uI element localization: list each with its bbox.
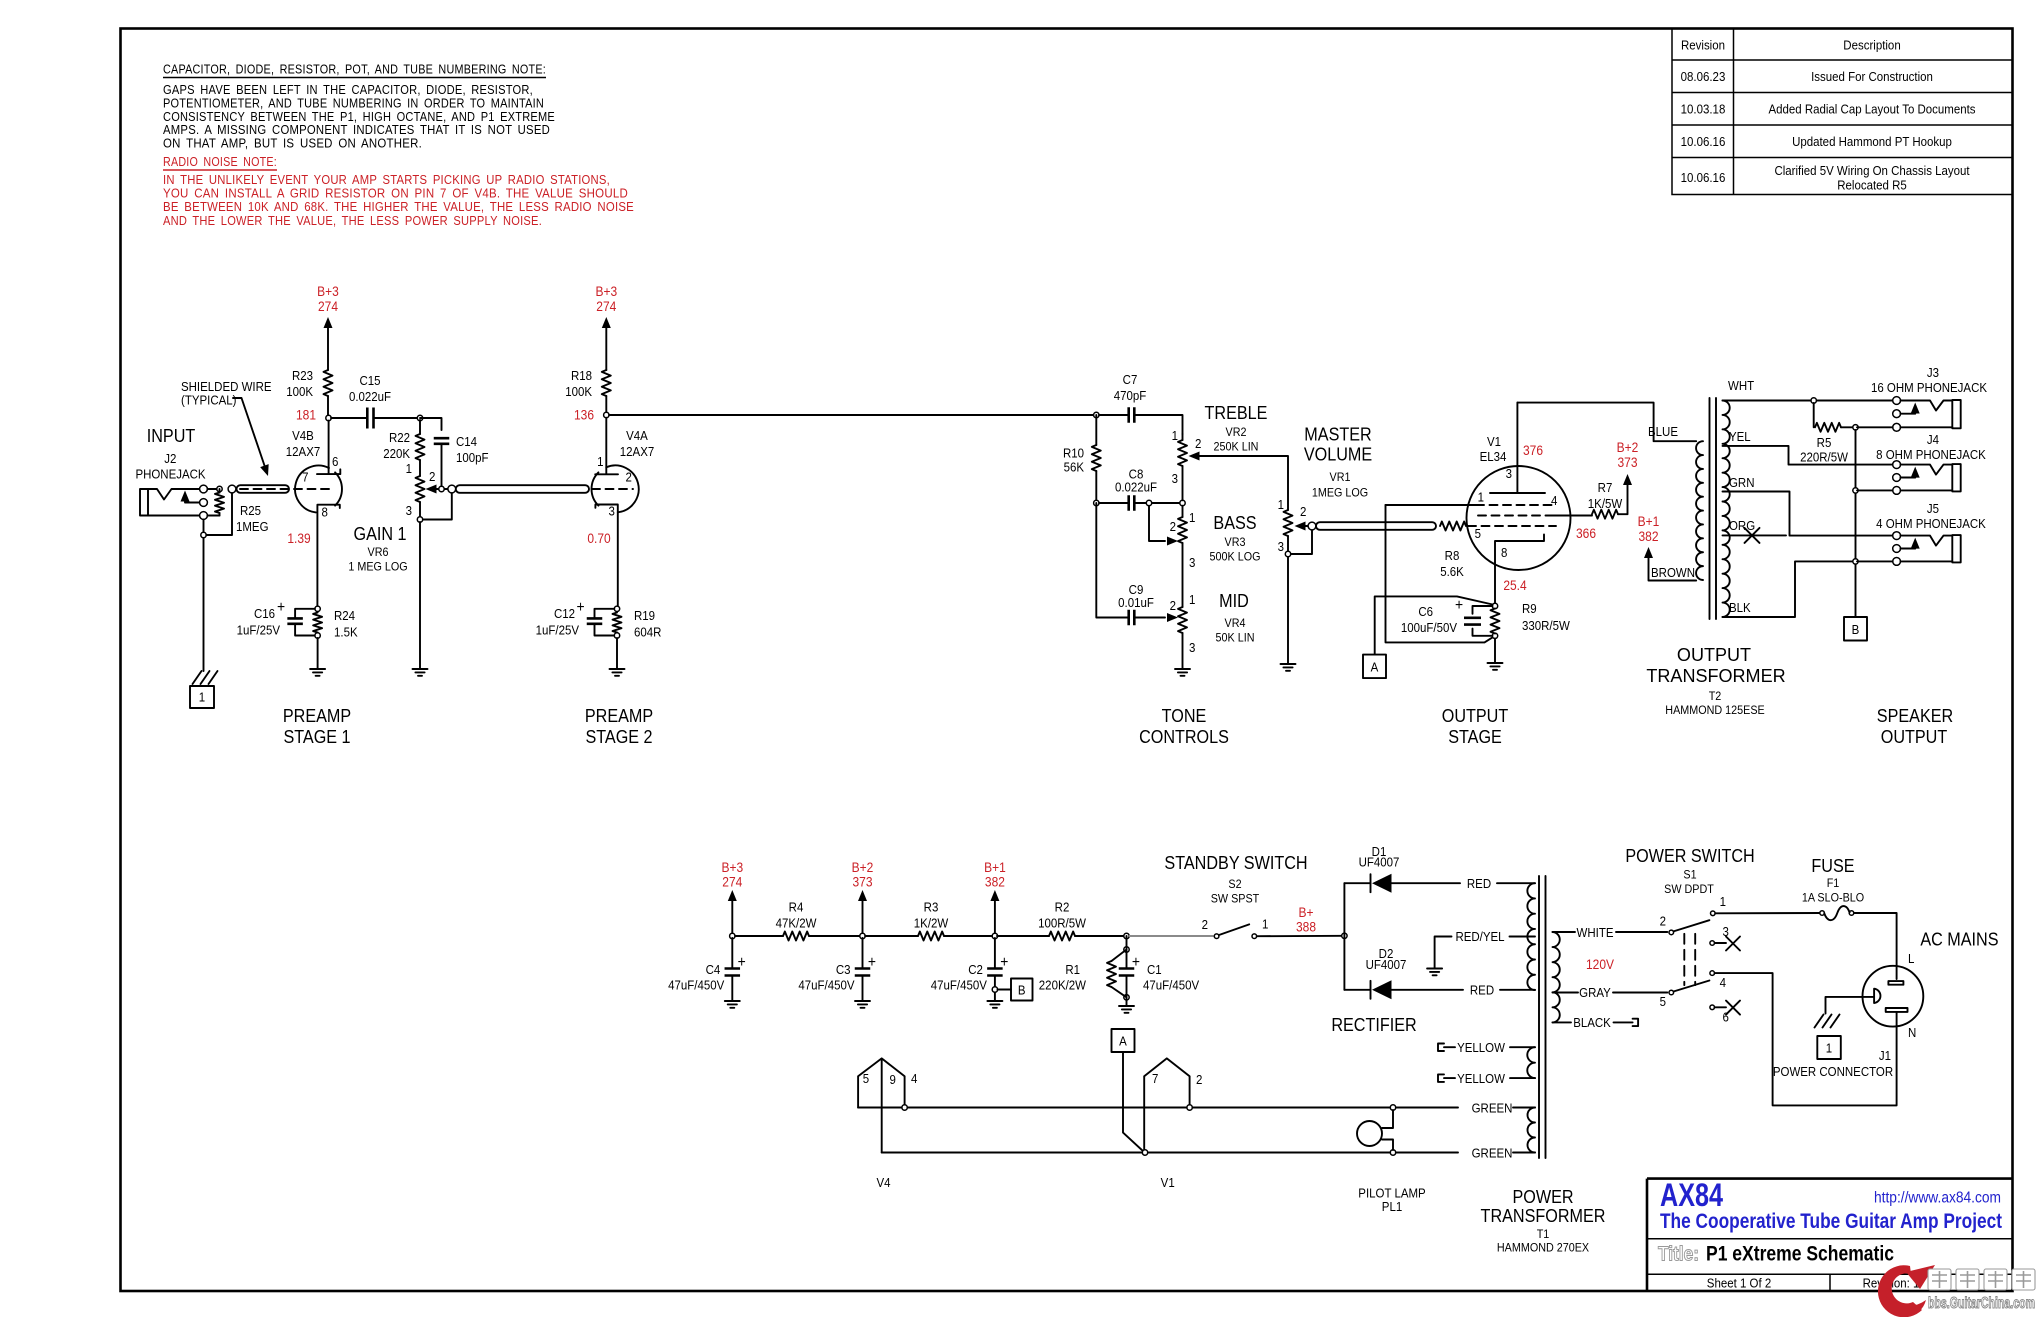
svg-text:J3: J3 <box>1927 365 1939 380</box>
VR4 wiper arrow <box>1167 613 1178 622</box>
svg-text:1: 1 <box>1189 592 1195 607</box>
svg-text:10.06.16: 10.06.16 <box>1681 170 1726 185</box>
node R9 top junction <box>1492 603 1497 608</box>
wire VR6 pin3 to ground <box>419 522 421 668</box>
svg-text:+: + <box>868 953 876 971</box>
svg-text:Title:: Title: <box>1658 1244 1699 1266</box>
svg-text:RECTIFIER: RECTIFIER <box>1331 1014 1416 1035</box>
ground under VR6 <box>413 669 428 676</box>
svg-text:R22: R22 <box>389 430 410 445</box>
node R19 bottom junction <box>614 633 619 638</box>
svg-text:STAGE 2: STAGE 2 <box>585 726 652 747</box>
svg-text:PREAMP: PREAMP <box>283 705 351 726</box>
svg-text:604R: 604R <box>634 625 661 640</box>
svg-text:PHONEJACK: PHONEJACK <box>135 467 206 482</box>
X mark on ORG tap <box>1745 528 1760 543</box>
capacitor C7 470pF <box>1129 407 1135 423</box>
capacitor C9 0.01uF <box>1129 610 1135 626</box>
node C8/bass junction <box>1146 500 1151 505</box>
svg-text:100R/5W: 100R/5W <box>1038 916 1086 931</box>
long wire node136 to tone stack <box>609 414 1096 416</box>
svg-text:Revision: Revision <box>1681 38 1725 53</box>
svg-text:47uF/450V: 47uF/450V <box>1143 978 1200 993</box>
T1 6.3V winding coil <box>1528 1108 1536 1153</box>
svg-text:V4: V4 <box>876 1175 890 1190</box>
svg-text:8 OHM PHONEJACK: 8 OHM PHONEJACK <box>1876 447 1986 462</box>
T2 core lines <box>1710 398 1717 619</box>
svg-text:R2: R2 <box>1055 900 1070 915</box>
svg-text:1A SLO-BLO: 1A SLO-BLO <box>1802 891 1864 905</box>
ground under tone stack <box>1175 669 1190 676</box>
node VR1 pin3 junction <box>1285 551 1290 556</box>
svg-text:1MEG LOG: 1MEG LOG <box>1312 486 1368 500</box>
svg-text:R10: R10 <box>1063 446 1084 461</box>
svg-text:4: 4 <box>1720 975 1726 990</box>
V1 heater connector <box>1144 1058 1189 1152</box>
node R10 bottom / C8 junction <box>1094 500 1099 505</box>
wire R3 to C2 node <box>944 935 995 937</box>
title block frame <box>1647 1179 2012 1292</box>
capacitor C14 100pF <box>434 438 450 444</box>
svg-text:STAGE: STAGE <box>1448 726 1502 747</box>
svg-text:AC MAINS: AC MAINS <box>1920 928 1998 949</box>
V4A plate <box>595 418 618 475</box>
svg-text:100pF: 100pF <box>456 450 489 465</box>
svg-text:Relocated R5: Relocated R5 <box>1837 178 1907 193</box>
svg-text:C14: C14 <box>456 434 477 449</box>
svg-text:47uF/450V: 47uF/450V <box>798 978 855 993</box>
svg-text:8: 8 <box>1501 545 1507 560</box>
svg-text:382: 382 <box>1638 528 1658 544</box>
chassis ground at input jack <box>193 671 218 684</box>
svg-text:3: 3 <box>1172 471 1178 486</box>
svg-text:B+3: B+3 <box>595 283 617 299</box>
speaker jack J5 sleeve wire <box>1901 560 1953 562</box>
svg-text:10.06.16: 10.06.16 <box>1681 134 1726 149</box>
svg-text:12AX7: 12AX7 <box>286 444 321 459</box>
wire plug ground pin to chassis <box>1826 997 1875 1014</box>
svg-text:OUTPUT: OUTPUT <box>1442 705 1509 726</box>
svg-text:388: 388 <box>1296 919 1316 935</box>
svg-text:R25: R25 <box>240 503 261 518</box>
speaker jack J4 circles <box>1893 461 1901 469</box>
svg-text:R23: R23 <box>292 368 313 383</box>
svg-text:1K/2W: 1K/2W <box>914 916 949 931</box>
svg-text:7: 7 <box>1152 1071 1158 1086</box>
svg-text:MID: MID <box>1219 590 1249 611</box>
resistor R9 330R/5W <box>1491 609 1500 634</box>
capacitor C8 0.022uF <box>1129 495 1135 511</box>
svg-text:1: 1 <box>1720 894 1726 909</box>
svg-text:FUSE: FUSE <box>1811 855 1854 876</box>
grid dashed line V4B <box>240 488 333 490</box>
diode D2 UF4007 <box>1344 989 1370 991</box>
svg-text:1: 1 <box>1189 510 1195 525</box>
wire C7 to VR2 rail <box>1134 415 1182 434</box>
svg-text:R18: R18 <box>571 368 592 383</box>
pilot lamp PL1 <box>1357 1121 1382 1146</box>
capacitor C15 0.022uF <box>367 408 373 429</box>
svg-text:TONE: TONE <box>1162 705 1207 726</box>
resistor R19 604R <box>613 613 622 633</box>
resistor R7 1K/5W <box>1592 510 1618 519</box>
svg-text:500K LOG: 500K LOG <box>1210 550 1261 564</box>
shielded cable to R8 <box>1316 522 1436 530</box>
svg-text:Updated Hammond PT Hookup: Updated Hammond PT Hookup <box>1792 134 1952 149</box>
svg-text:HAMMOND 270EX: HAMMOND 270EX <box>1497 1241 1589 1255</box>
wire J3 sleeve to bus <box>1857 426 1893 428</box>
svg-text:V4A: V4A <box>626 428 648 443</box>
svg-text:373: 373 <box>852 874 872 890</box>
terminal box 1 power connector <box>1817 1036 1841 1059</box>
svg-text:OUTPUT: OUTPUT <box>1881 726 1948 747</box>
AC plug ground pin <box>1874 989 1880 1003</box>
svg-text:0.70: 0.70 <box>587 530 610 546</box>
wire contact1 to fuse <box>1715 912 1820 914</box>
node V4A cathode top junction <box>614 606 619 611</box>
speaker jack J5 circles <box>1893 532 1901 540</box>
standby switch S2 contacts and lever <box>1214 934 1219 939</box>
potentiometer VR2 TREBLE 250K LIN <box>1178 440 1187 466</box>
ground under C3 <box>855 1001 870 1008</box>
node pilot lamp bottom junction <box>1390 1150 1395 1155</box>
wire C8 to bass node <box>1134 502 1182 504</box>
svg-text:J1: J1 <box>1879 1048 1891 1063</box>
svg-text:1: 1 <box>1278 497 1284 512</box>
svg-text:R9: R9 <box>1522 601 1537 616</box>
A box stem to heater line <box>1123 1052 1145 1153</box>
svg-text:RADIO NOISE NOTE:: RADIO NOISE NOTE: <box>163 155 277 169</box>
B box at C2 <box>1011 979 1033 1001</box>
capacitor C6 100uF/50V with bracket <box>1473 606 1493 636</box>
A box near output stage <box>1363 655 1386 679</box>
node C1 junction <box>1124 933 1129 938</box>
wire C1 to ground <box>1126 976 1128 1006</box>
svg-text:2: 2 <box>1195 436 1201 451</box>
svg-text:3: 3 <box>1278 539 1284 554</box>
V4 heater connector <box>858 1058 905 1152</box>
svg-text:R5: R5 <box>1817 435 1832 450</box>
AC mains plug J1 circle <box>1863 966 1924 1027</box>
svg-text:100K: 100K <box>286 384 313 399</box>
V4B plate <box>317 421 340 475</box>
node pilot lamp top junction <box>1390 1105 1395 1110</box>
svg-text:250K LIN: 250K LIN <box>1214 440 1259 454</box>
node R9 bottom junction <box>1492 633 1497 638</box>
svg-text:bbs.GuitarChina.com: bbs.GuitarChina.com <box>1928 1295 2035 1312</box>
shield drop wire from cable shield <box>206 494 232 536</box>
svg-text:L: L <box>1908 951 1914 966</box>
svg-text:S1: S1 <box>1683 868 1696 882</box>
svg-text:B+1: B+1 <box>1638 513 1660 529</box>
wire C2 to ground and B box tap <box>994 976 996 1001</box>
ground under R24 <box>310 669 325 676</box>
node C14 wiper junction <box>439 486 444 491</box>
svg-text:100K: 100K <box>565 384 592 399</box>
svg-text:220R/5W: 220R/5W <box>1800 450 1848 465</box>
svg-text:R1: R1 <box>1065 962 1080 977</box>
svg-text:+: + <box>1455 596 1463 614</box>
T2 secondary tap BLK <box>1723 561 1854 617</box>
svg-text:The Cooperative Tube Guitar Am: The Cooperative Tube Guitar Amp Project <box>1660 1210 2002 1233</box>
watermark red logo <box>1878 1265 1935 1317</box>
T1 HV center tap RED/YEL wire <box>1435 937 1535 968</box>
B+2 arrow at screen <box>1623 474 1632 485</box>
svg-text:P1 eXtreme Schematic: P1 eXtreme Schematic <box>1706 1243 1894 1266</box>
svg-text:VOLUME: VOLUME <box>1304 443 1372 464</box>
svg-text:J2: J2 <box>164 451 176 466</box>
speaker jack J5 switch arrow <box>1911 538 1920 549</box>
capacitor C12 1uF/25V with bracket <box>595 609 615 636</box>
svg-text:IN THE UNLIKELY EVENT YOUR AMP: IN THE UNLIKELY EVENT YOUR AMP STARTS PI… <box>163 173 610 187</box>
ground under R9 <box>1488 663 1503 670</box>
svg-text:1uF/25V: 1uF/25V <box>237 623 281 638</box>
svg-text:C7: C7 <box>1123 372 1138 387</box>
T2 secondary coil <box>1723 401 1730 617</box>
fuse F1 symbol <box>1820 911 1825 916</box>
switch S1 contact 4 <box>1710 971 1715 976</box>
svg-text:1uF/25V: 1uF/25V <box>536 623 580 638</box>
node R24 bottom junction <box>315 633 320 638</box>
svg-text:C1: C1 <box>1147 962 1162 977</box>
svg-text:BROWN: BROWN <box>1651 565 1695 580</box>
svg-text:2: 2 <box>1300 504 1306 519</box>
T1 6.3V winding leads GREEN <box>1513 1107 1535 1109</box>
svg-text:GAIN 1: GAIN 1 <box>353 523 406 544</box>
svg-text:4 OHM PHONEJACK: 4 OHM PHONEJACK <box>1876 516 1986 531</box>
svg-text:ON THAT AMP, BUT IS USED ON AN: ON THAT AMP, BUT IS USED ON ANOTHER. <box>163 137 422 151</box>
svg-text:RED: RED <box>1470 983 1494 998</box>
VR1 wiper arrow <box>1295 522 1306 531</box>
screen g2 dashed line V1 <box>1478 515 1548 517</box>
wire C15 to node <box>374 417 421 419</box>
svg-text:B+2: B+2 <box>1617 439 1639 455</box>
svg-text:A: A <box>1371 660 1379 675</box>
AC plug N terminal <box>1886 1008 1908 1012</box>
ground under C2 <box>987 1001 1002 1008</box>
svg-text:1: 1 <box>1826 1041 1832 1056</box>
svg-text:F1: F1 <box>1827 876 1840 890</box>
svg-text:376: 376 <box>1523 442 1543 458</box>
svg-text:0.01uF: 0.01uF <box>1118 595 1154 610</box>
svg-text:UF4007: UF4007 <box>1359 855 1400 870</box>
input jack J2 body <box>140 489 148 516</box>
grid g1 dashed line V1 <box>1468 525 1556 527</box>
svg-text:8: 8 <box>322 505 328 520</box>
svg-text:47uF/450V: 47uF/450V <box>668 978 725 993</box>
svg-text:HAMMOND 125ESE: HAMMOND 125ESE <box>1665 703 1765 717</box>
svg-text:T1: T1 <box>1537 1227 1550 1241</box>
node VR2 pin3 junction <box>1180 500 1185 505</box>
svg-text:YEL: YEL <box>1729 429 1751 444</box>
svg-text:+: + <box>1000 953 1008 971</box>
suppressor g3 wire and dashed line V1 <box>1386 504 1477 506</box>
svg-text:Clarified 5V Wiring On Cha: Clarified 5V Wiring On Chassis Layout <box>1774 163 1970 178</box>
shield circle at VR6 wiper cable <box>448 485 456 493</box>
svg-text:274: 274 <box>722 874 742 890</box>
svg-text:V1: V1 <box>1161 1175 1175 1190</box>
svg-text:10.03.18: 10.03.18 <box>1681 102 1726 117</box>
heater elevation outline to A <box>1375 596 1493 654</box>
speaker jack J5 tip contact <box>1901 536 1953 546</box>
svg-text:CONSISTENCY BETWEEN THE P1, HI: CONSISTENCY BETWEEN THE P1, HIGH OCTANE,… <box>163 110 555 124</box>
svg-text:Sheet 1 Of 2: Sheet 1 Of 2 <box>1707 1276 1772 1291</box>
switch S1 mechanical link dashes <box>1684 934 1695 985</box>
V4A cathode <box>595 505 617 608</box>
svg-text:PL1: PL1 <box>1382 1199 1403 1214</box>
svg-text:R8: R8 <box>1445 548 1460 563</box>
svg-text:STAGE 1: STAGE 1 <box>283 726 350 747</box>
svg-text:5: 5 <box>863 1071 869 1086</box>
grid-stop node to suppressor rail <box>1386 505 1496 642</box>
wire R9 to ground <box>1494 639 1496 663</box>
resistor R8 5.6K <box>1440 522 1466 531</box>
VR3 wiper arrow <box>1167 537 1178 546</box>
node C3 junction <box>860 933 865 938</box>
svg-text:SW SPST: SW SPST <box>1211 892 1260 906</box>
svg-text:POTENTIOMETER, AND TUBE NUMBER: POTENTIOMETER, AND TUBE NUMBERING IN ORD… <box>163 96 544 110</box>
speaker jack J4 body <box>1952 464 1960 491</box>
svg-text:2: 2 <box>1170 598 1176 613</box>
pentode V1 EL34 envelope <box>1467 466 1571 570</box>
svg-text:08.06.23: 08.06.23 <box>1681 69 1726 84</box>
node bus/J4 sleeve junction <box>1853 488 1858 493</box>
svg-text:VR4: VR4 <box>1225 616 1246 630</box>
svg-text:1.39: 1.39 <box>287 530 310 546</box>
svg-text:C2: C2 <box>968 962 983 977</box>
svg-text:R7: R7 <box>1598 480 1613 495</box>
switch S1 contact 6 crossed <box>1710 1005 1715 1010</box>
V1 cathode <box>1495 535 1544 604</box>
svg-text:POWER CONNECTOR: POWER CONNECTOR <box>1773 1064 1893 1079</box>
svg-text:Issued For Construction: Issued For Construction <box>1811 69 1933 84</box>
svg-text:GREEN: GREEN <box>1472 1146 1513 1161</box>
resistor R2 100R/5W <box>1049 932 1075 941</box>
svg-text:2: 2 <box>1170 519 1176 534</box>
T1 5V winding leads YELLOW <box>1438 1044 1535 1052</box>
shield drop to VR1 pin3 <box>1291 530 1312 554</box>
svg-text:274: 274 <box>318 298 338 314</box>
svg-text:2: 2 <box>1196 1072 1202 1087</box>
potentiometer VR4 MID 50K LIN <box>1178 607 1187 633</box>
switch S1 contact 3 crossed <box>1710 941 1715 946</box>
svg-text:S2: S2 <box>1228 877 1241 891</box>
VR2 wiper arrow <box>1189 452 1200 461</box>
svg-text:AMPS. A MISSING COMPONENT IND: AMPS. A MISSING COMPONENT INDICATES THAT… <box>163 123 550 137</box>
svg-text:Added Radial Cap Layout To: Added Radial Cap Layout To Documents <box>1768 102 1975 117</box>
node C2 junction <box>992 933 997 938</box>
left rail down to R10 <box>1095 415 1097 445</box>
shield drop to VR6 pin3 <box>422 493 452 519</box>
node C4 junction <box>730 933 735 938</box>
svg-text:R24: R24 <box>334 608 355 623</box>
svg-text:C4: C4 <box>706 962 721 977</box>
svg-text:WHITE: WHITE <box>1577 925 1614 940</box>
grid dashed line V4A <box>592 488 633 490</box>
wire N to switch contact 4 <box>1715 973 1897 1105</box>
svg-text:EL34: EL34 <box>1480 449 1507 464</box>
svg-text:366: 366 <box>1576 525 1596 541</box>
T2 secondary tap GRN <box>1723 492 1893 536</box>
node WHT/R5 junction <box>1811 398 1816 403</box>
svg-text:100uF/50V: 100uF/50V <box>1401 620 1458 635</box>
svg-text:1.5K: 1.5K <box>334 625 358 640</box>
bass wiper wire <box>1149 506 1165 541</box>
speaker jack J3 tip contact <box>1901 401 1953 411</box>
svg-text:1: 1 <box>1478 490 1484 505</box>
svg-text:TREBLE: TREBLE <box>1205 402 1268 423</box>
wire node to C14 top <box>420 418 442 430</box>
resistor R10 56K <box>1092 445 1101 471</box>
speaker common bus <box>1855 430 1857 617</box>
wire J4 sleeve to bus <box>1857 489 1893 491</box>
speaker jack J4 tip contact <box>1901 465 1953 475</box>
svg-text:CONTROLS: CONTROLS <box>1139 726 1229 747</box>
svg-text:GREEN: GREEN <box>1472 1101 1513 1116</box>
svg-text:BASS: BASS <box>1213 512 1256 533</box>
wire R4 to C3 node <box>809 935 863 937</box>
svg-text:VR1: VR1 <box>1330 470 1351 484</box>
svg-text:B: B <box>1018 983 1026 998</box>
T1 primary lead WHITE <box>1553 931 1668 933</box>
svg-text:VR6: VR6 <box>368 545 389 559</box>
wire jack tip to R25 node <box>207 488 219 490</box>
svg-text:Description: Description <box>1843 38 1901 53</box>
svg-text:RED: RED <box>1467 876 1491 891</box>
svg-text:PREAMP: PREAMP <box>585 705 653 726</box>
C9 to VR4 wiper wire <box>1134 617 1165 619</box>
input jack J2 tip contact <box>148 489 200 500</box>
wire to B box <box>998 989 1012 991</box>
svg-text:B+3: B+3 <box>317 283 339 299</box>
svg-text:1K/5W: 1K/5W <box>1588 496 1623 511</box>
T2 primary coil <box>1696 441 1703 580</box>
svg-text:5.6K: 5.6K <box>1440 564 1464 579</box>
svg-text:B: B <box>1852 622 1860 637</box>
svg-text:TRANSFORMER: TRANSFORMER <box>1481 1205 1606 1226</box>
node R5/J3 sleeve junction <box>1853 425 1858 430</box>
svg-text:220K: 220K <box>383 446 410 461</box>
terminal box 1 at input ground <box>190 686 214 708</box>
svg-text:1MEG: 1MEG <box>236 519 269 534</box>
svg-text:56K: 56K <box>1064 460 1085 475</box>
resistor R1 220K/2W bowed <box>1124 947 1129 952</box>
svg-text:47K/2W: 47K/2W <box>776 916 817 931</box>
svg-text:TRANSFORMER: TRANSFORMER <box>1646 665 1785 686</box>
input jack J2 sleeve wire <box>148 515 200 517</box>
node bus/BLK junction <box>1853 559 1858 564</box>
svg-text:BLUE: BLUE <box>1648 424 1678 439</box>
svg-text:5: 5 <box>1475 526 1481 541</box>
svg-text:274: 274 <box>596 298 616 314</box>
wire rail C4 to R4 <box>735 935 783 937</box>
V4B cathode <box>317 505 339 607</box>
wire R19 to ground <box>616 638 618 668</box>
node 136 junction <box>604 412 609 417</box>
svg-text:+: + <box>277 598 285 616</box>
wire fuse to AC mains L <box>1854 913 1897 979</box>
svg-text:YELLOW: YELLOW <box>1457 1040 1505 1055</box>
svg-text:WHT: WHT <box>1728 378 1755 393</box>
svg-text:5: 5 <box>1660 994 1666 1009</box>
V1 plate wire to output transformer BLUE <box>1517 403 1696 442</box>
svg-text:C15: C15 <box>359 373 380 388</box>
input jack J2 terminal circles <box>200 485 208 493</box>
T2 secondary tap WHT <box>1723 400 1894 402</box>
wire RED to T1 winding top <box>1497 882 1535 884</box>
ground under C1 <box>1119 1006 1134 1013</box>
node 181 junction <box>326 415 331 420</box>
